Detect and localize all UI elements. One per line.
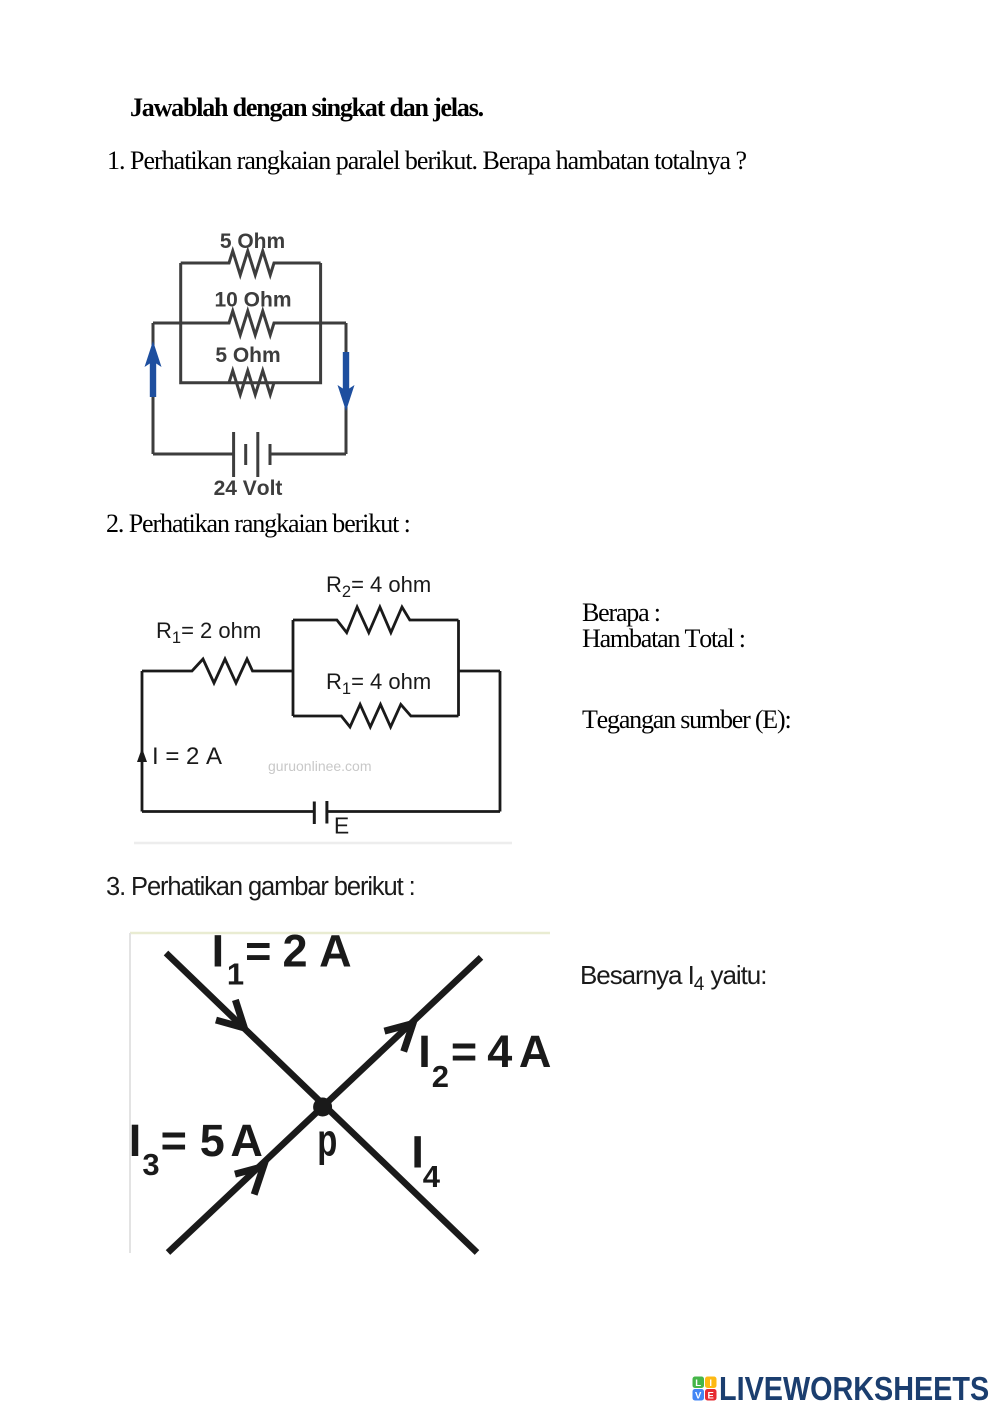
svg-text:I = 2 A: I = 2 A [152, 743, 222, 770]
logo square E [705, 1389, 717, 1401]
wire left vertical [152, 323, 155, 454]
wire left vertical [141, 671, 144, 812]
svg-text:p: p [317, 1116, 337, 1166]
wire bottom left [153, 453, 234, 456]
svg-text:L: L [695, 1378, 701, 1389]
image top border [130, 932, 550, 935]
node label p [317, 1116, 337, 1166]
value label 10 Ohm [214, 288, 291, 311]
svg-text:I: I [709, 1378, 712, 1389]
watermark guruonlinee.com [268, 758, 372, 774]
logo square L [693, 1377, 705, 1389]
svg-text:24 Volt: 24 Volt [214, 477, 283, 500]
battery E [314, 801, 327, 824]
image left border [129, 933, 131, 1253]
resistor R-mid 10 Ohm on middle wire [153, 311, 346, 335]
svg-text:5 Ohm: 5 Ohm [220, 230, 285, 253]
wire bottom right [327, 810, 500, 813]
value label 24 Volt [214, 477, 283, 500]
logo square V [693, 1389, 705, 1401]
value label E [334, 813, 349, 839]
svg-text:I1=2A: I1=2A [212, 928, 352, 992]
question 1 text [107, 148, 746, 174]
wire parallel box left [292, 620, 295, 716]
current arrow down (right) [338, 352, 355, 411]
value label I3 = 5 A [129, 1115, 263, 1182]
wire I1-I4 diagonal [166, 953, 477, 1253]
liveworksheets logo [692, 1375, 997, 1405]
wire right vertical [345, 323, 348, 454]
wire right vertical [499, 671, 502, 812]
answer prompt: Berapa / Hambatan Total [582, 600, 745, 652]
resistor R-top 5 Ohm [181, 251, 321, 275]
value label R1 = 2 ohm [156, 618, 261, 647]
wire inner rectangle [181, 263, 321, 383]
resistor R2 4 ohm (top branch) [293, 607, 459, 633]
svg-text:I4: I4 [411, 1127, 440, 1194]
svg-text:R2= 4 ohm: R2= 4 ohm [326, 572, 431, 601]
value label R1 = 4 ohm (lower branch) [326, 669, 431, 698]
svg-text:5 Ohm: 5 Ohm [215, 344, 280, 367]
node p junction dot [313, 1098, 332, 1117]
current arrow I = 2 A [137, 748, 147, 762]
battery 24 Volt [234, 432, 270, 477]
value label I = 2 A [152, 743, 222, 770]
resistor R1 2 ohm (series) [142, 659, 293, 683]
resistor R-bot 5 Ohm on bottom of inner rectangle [229, 371, 274, 395]
logo text [719, 1370, 989, 1407]
value label I2 = 4 A [418, 1026, 551, 1094]
figure 2: series-parallel circuit [125, 565, 525, 855]
svg-text:E: E [334, 813, 349, 839]
wire parallel box right [457, 620, 460, 716]
wire right to outer [459, 670, 501, 673]
question 2 text [106, 511, 410, 537]
svg-text:E: E [708, 1390, 714, 1401]
svg-text:V: V [695, 1390, 702, 1401]
image bottom border [134, 842, 512, 845]
current arrow I3 [235, 1156, 273, 1194]
wire I3-I2 diagonal [168, 957, 481, 1252]
figure 1: parallel resistor circuit [140, 220, 365, 510]
resistor R1 4 ohm (bottom branch) [293, 704, 459, 727]
answer prompt: Tegangan sumber [582, 707, 790, 733]
value label 5 Ohm (bottom) [215, 344, 280, 367]
svg-text:guruonlinee.com: guruonlinee.com [268, 758, 372, 774]
svg-text:I2=4A: I2=4A [418, 1026, 551, 1094]
value label 5 Ohm (top) [220, 230, 285, 253]
value label I4 [411, 1127, 440, 1194]
title [130, 95, 483, 121]
current arrow I2 [384, 1013, 422, 1051]
logo square I [705, 1377, 717, 1389]
question 3 text [106, 875, 415, 901]
svg-text:R1= 4 ohm: R1= 4 ohm [326, 669, 431, 698]
figure 3: current junction [128, 928, 558, 1260]
current arrow up (left) [145, 341, 162, 397]
wire bottom right [270, 453, 346, 456]
svg-text:LIVEWORKSHEETS: LIVEWORKSHEETS [719, 1375, 989, 1405]
value label I1 = 2 A [212, 926, 352, 992]
wire bottom left [142, 810, 314, 813]
answer prompt: Besarnya I4 yaitu [580, 962, 766, 994]
svg-text:R1= 2 ohm: R1= 2 ohm [156, 618, 261, 647]
current arrow I1 [216, 1000, 254, 1038]
value label R2 = 4 ohm [326, 572, 431, 601]
svg-text:10 Ohm: 10 Ohm [214, 288, 291, 311]
